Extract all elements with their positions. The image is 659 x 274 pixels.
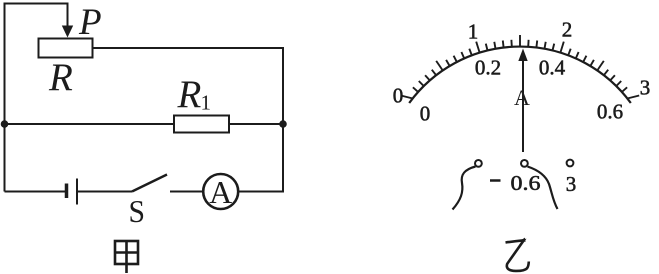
svg-text:0.2: 0.2	[475, 56, 501, 80]
battery negative plate	[65, 184, 69, 199]
wire battery to switch	[78, 191, 132, 193]
svg-text:1: 1	[468, 20, 479, 44]
svg-text:0.4: 0.4	[539, 56, 566, 80]
wire bottom left	[5, 191, 66, 193]
terminal 0.6 circle	[521, 160, 528, 167]
resistor R1	[174, 116, 229, 133]
svg-text:3: 3	[566, 172, 577, 196]
svg-text:0.6: 0.6	[511, 171, 541, 195]
svg-text:S: S	[129, 193, 146, 229]
wire rheostat to right rail	[93, 48, 284, 192]
wire switch to ammeter	[170, 191, 203, 193]
svg-text:0: 0	[420, 102, 431, 126]
needle shaft	[522, 60, 524, 152]
wire middle branch left	[5, 123, 175, 125]
switch S arm	[132, 175, 167, 192]
wire left and top loop	[5, 4, 68, 192]
needle arrowhead	[518, 49, 527, 62]
svg-text:R: R	[48, 56, 73, 99]
slider arrow head P	[62, 26, 73, 38]
svg-text:P: P	[78, 2, 102, 43]
svg-text:R: R	[177, 73, 202, 116]
svg-text:0: 0	[393, 84, 404, 108]
node left junction	[1, 120, 9, 128]
dial tick marks	[401, 35, 639, 99]
ammeter circle	[203, 174, 238, 209]
wire ammeter to right corner	[238, 191, 284, 193]
dial arc	[409, 47, 631, 103]
rheostat R	[39, 39, 93, 58]
terminal minus circle	[475, 160, 482, 167]
svg-text:2: 2	[562, 18, 573, 42]
terminal minus wire	[453, 167, 476, 210]
svg-text:A: A	[209, 174, 232, 210]
label jia (figure 1)	[115, 241, 138, 273]
terminal 3 circle	[567, 160, 574, 167]
terminal 0.6 wire	[528, 167, 558, 210]
svg-text:0.6: 0.6	[597, 100, 623, 124]
node right junction	[279, 120, 287, 128]
label minus	[490, 179, 501, 182]
wire middle branch right	[229, 123, 283, 125]
battery positive plate	[76, 179, 78, 205]
svg-text:3: 3	[640, 76, 651, 100]
svg-text:1: 1	[201, 91, 212, 115]
label yi (figure 2)	[506, 240, 529, 271]
